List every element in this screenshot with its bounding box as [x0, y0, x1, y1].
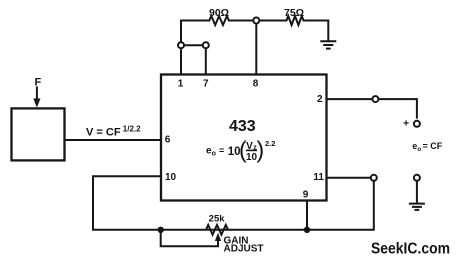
- svg-text:11: 11: [313, 172, 324, 183]
- svg-text:433: 433: [229, 118, 256, 135]
- svg-text:1/2.2: 1/2.2: [123, 124, 141, 133]
- svg-text:25k: 25k: [209, 214, 226, 225]
- svg-text:): ): [257, 137, 265, 163]
- svg-text:ADJUST: ADJUST: [224, 244, 264, 255]
- svg-text:2.2: 2.2: [265, 139, 275, 148]
- svg-text:8: 8: [253, 78, 259, 89]
- svg-text:6: 6: [165, 135, 171, 146]
- svg-text:o: o: [417, 146, 421, 153]
- svg-text:9: 9: [303, 190, 309, 201]
- svg-text:2: 2: [317, 94, 323, 105]
- svg-text:75Ω: 75Ω: [284, 7, 304, 19]
- svg-text:7: 7: [203, 78, 209, 89]
- svg-text:= CF: = CF: [423, 141, 443, 151]
- svg-text:1: 1: [178, 78, 184, 89]
- svg-text:90Ω: 90Ω: [209, 7, 229, 19]
- svg-text:10: 10: [165, 172, 177, 183]
- svg-text:V = CF: V = CF: [86, 127, 121, 139]
- svg-text:=: =: [219, 146, 224, 156]
- svg-text:SeekIC.com: SeekIC.com: [371, 241, 450, 258]
- svg-text:+: +: [403, 118, 409, 130]
- svg-text:F: F: [35, 76, 42, 88]
- svg-text:o: o: [212, 151, 216, 158]
